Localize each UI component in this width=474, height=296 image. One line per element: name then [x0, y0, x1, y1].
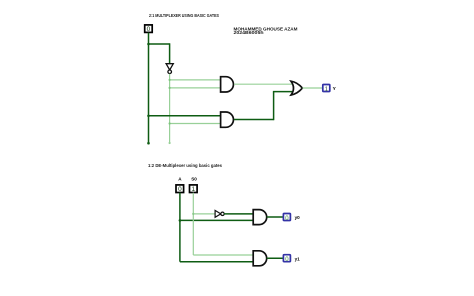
wire: AND U2 input 2 (high): [170, 87, 221, 89]
input pin A: [176, 185, 184, 193]
svg-text:y1: y1: [295, 256, 301, 261]
junction: [147, 43, 150, 46]
svg-text:y0: y0: [295, 215, 301, 220]
wire end dot: [147, 142, 150, 145]
svg-text:1:2 DE-Multiplexer using basic: 1:2 DE-Multiplexer using basic gates: [148, 163, 222, 169]
output pin y0: [283, 214, 290, 222]
wire: A to AND U6 bottom input (low): [180, 261, 254, 263]
input pin S (select, top circuit): [145, 25, 153, 33]
wire: inverter output vertical (high): [169, 74, 171, 143]
wire: riser to OR (low): [273, 92, 275, 121]
junction: [169, 87, 171, 89]
wire: AND U3 input 2 (high): [170, 123, 221, 125]
junction: [169, 79, 171, 81]
svg-text:0: 0: [178, 186, 182, 193]
svg-text:1: 1: [325, 86, 329, 93]
wire: A to AND U5 bottom input (low): [180, 219, 254, 221]
wire: branch to inverter (vertical): [169, 43, 171, 63]
NOT gate U7 (pointing right): [215, 210, 224, 217]
output pin Y: [323, 85, 330, 94]
wire: S0 to inverter U7 (high): [193, 213, 215, 215]
NOT gate U1 (pointing down): [166, 64, 173, 74]
wire: main vertical from pin S: [148, 33, 150, 144]
wire: S0 vertical (high): [192, 193, 194, 255]
svg-text:1: 1: [192, 186, 196, 193]
AND gate U3 (bottom): [221, 112, 234, 127]
input pin S0: [190, 185, 198, 193]
wire: U5 output (low): [267, 216, 284, 218]
wire end dot (light): [169, 142, 171, 144]
AND gate U2 (top): [221, 77, 234, 92]
svg-text:0: 0: [147, 26, 151, 33]
AND gate U5 (y0): [253, 210, 267, 225]
junction: [192, 213, 194, 215]
wire: branch to inverter (horizontal): [148, 43, 170, 45]
svg-text:S0: S0: [191, 176, 197, 181]
wire: U3 output horizontal (low): [234, 119, 274, 121]
OR gate U4: [291, 81, 302, 95]
svg-text:2024B6005h: 2024B6005h: [234, 30, 264, 35]
wire: AND U2 input 1 (high): [170, 79, 221, 81]
wire: U2 output to OR (high): [234, 83, 292, 85]
junction: [169, 122, 171, 124]
svg-text:2:1 MULTIPLEXER USING BASIC GA: 2:1 MULTIPLEXER USING BASIC GATES: [149, 13, 220, 19]
output pin y1: [283, 255, 290, 263]
wire: OR output to Y (high): [302, 87, 322, 89]
wire: U6 output (low): [267, 257, 284, 259]
junction: [147, 115, 150, 118]
wire: AND U3 input 1 (low, from main vertical): [149, 115, 221, 117]
wire: to OR input 2 (low): [273, 91, 292, 93]
wire: U7 output to AND U5 (low): [224, 213, 254, 215]
AND gate U6 (y1): [253, 251, 266, 266]
junction: [179, 219, 182, 222]
wire: S0 to AND U6 top input (high): [193, 254, 253, 256]
wire: A vertical (low): [179, 193, 181, 262]
